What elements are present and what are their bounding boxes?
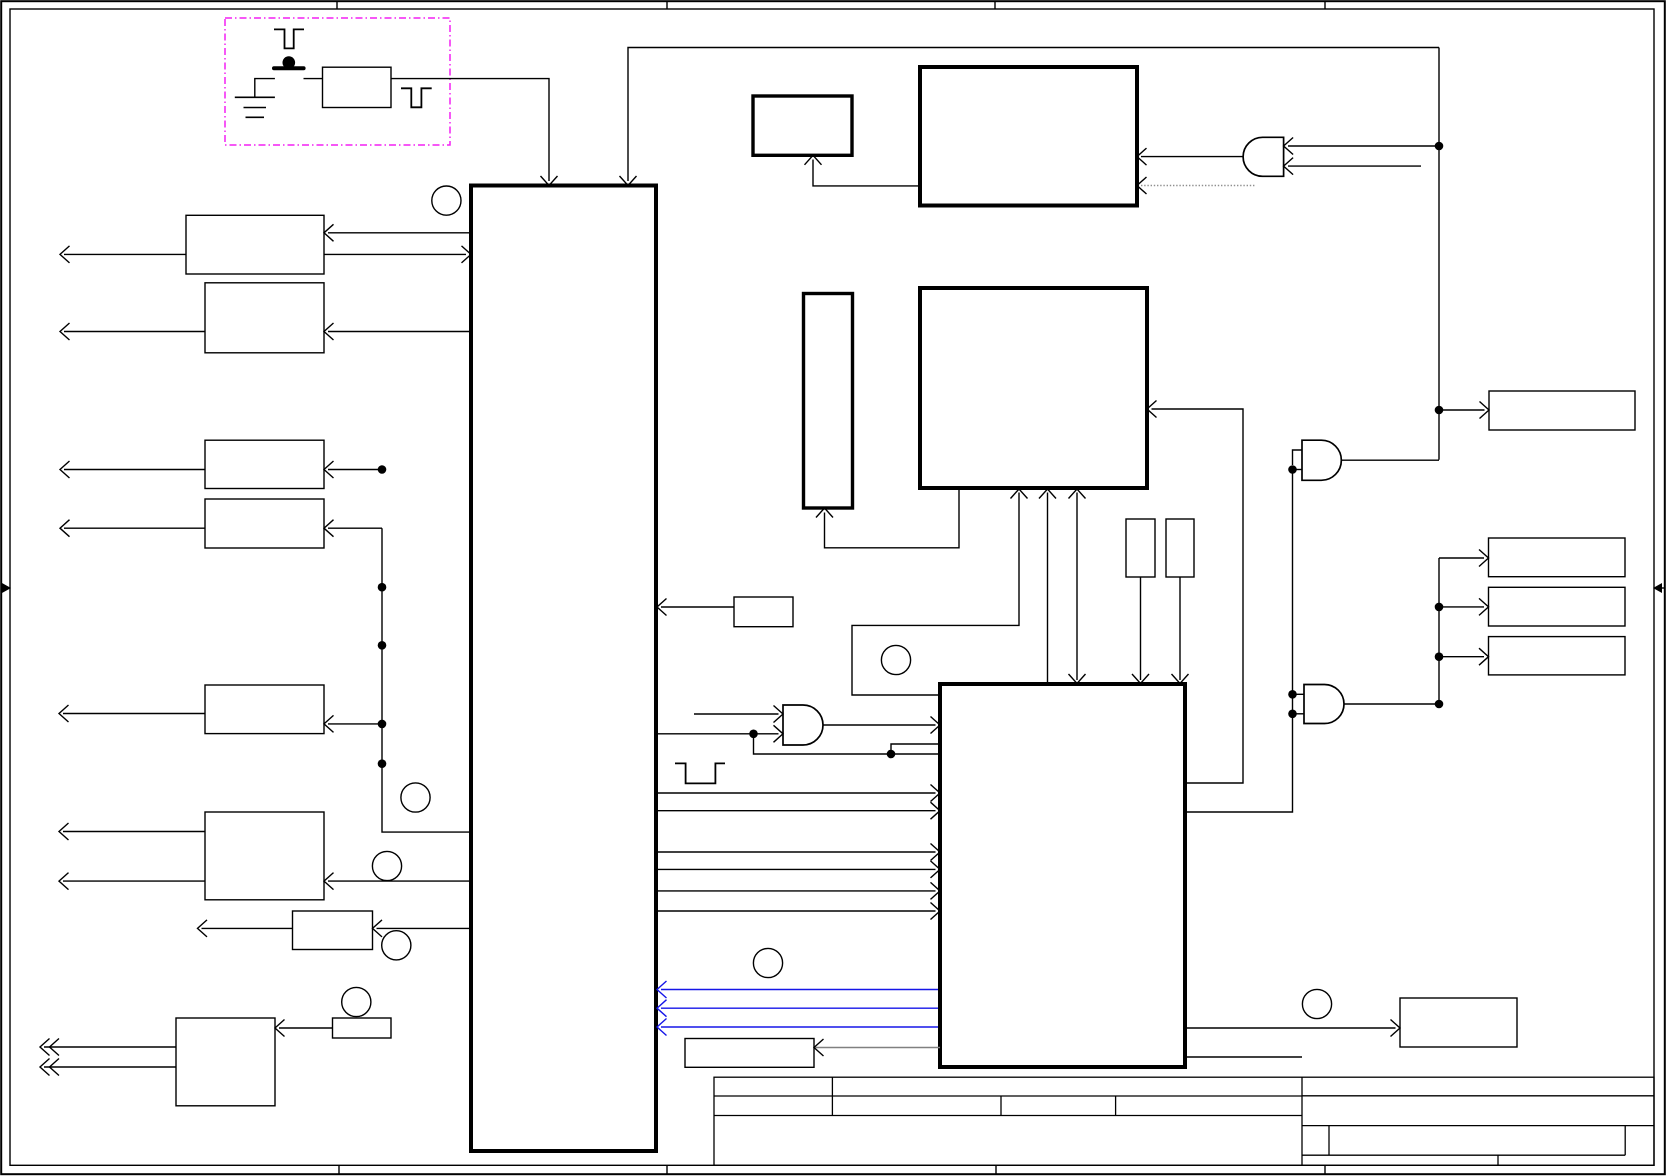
wire U5 output xyxy=(1341,459,1439,461)
U5 input stub 2 xyxy=(1293,469,1303,471)
pulse symbol (enable) xyxy=(675,763,725,783)
arrow into CPU top pin 2 xyxy=(620,176,637,186)
wire bus to box E xyxy=(328,723,382,725)
arrow data bus line 4 xyxy=(931,861,941,878)
wire U3 input 2 from CPU xyxy=(657,733,779,735)
junction U2 input1 / vertical net xyxy=(1435,142,1444,151)
data bus line 3 CPU to LCD xyxy=(657,851,936,853)
blue arrow line 1 xyxy=(657,981,667,998)
arrow box E output xyxy=(59,705,69,722)
junction enable branch xyxy=(887,750,896,759)
arrow data bus line 2 xyxy=(931,802,941,819)
title block main divider xyxy=(1301,1077,1303,1165)
arrow box H line 1 outer xyxy=(40,1039,50,1056)
annotation circle 3 xyxy=(372,851,401,880)
wire CPU to box F xyxy=(328,880,471,882)
junction box 6b xyxy=(1435,603,1444,612)
annotation circle 1 xyxy=(432,186,461,215)
data line 2 RAM to LCD xyxy=(1047,493,1049,683)
junction box 6c xyxy=(1435,652,1444,661)
arrow into RAM right edge xyxy=(1147,401,1157,418)
annotation circle 6 xyxy=(753,948,782,977)
arrow into box G right xyxy=(373,920,383,937)
title block right bottom divider xyxy=(1497,1155,1499,1165)
arrow into box5 xyxy=(1480,402,1490,419)
wire LCD to box L xyxy=(1185,1027,1396,1029)
wire to box 6a xyxy=(1439,557,1484,559)
arrow U3 input 2 xyxy=(774,725,784,742)
data bus line 1 CPU to LCD xyxy=(657,792,936,794)
arrow U3 input 1 xyxy=(774,706,784,723)
LCD controller block xyxy=(940,684,1185,1067)
annotation circle 7 xyxy=(881,645,910,674)
arrow box F output 1 xyxy=(59,823,69,840)
arrow into box D xyxy=(324,520,334,537)
junction U3 input2 branch xyxy=(749,730,758,739)
IO box F xyxy=(205,812,324,900)
wire net to box C xyxy=(328,469,382,471)
net dot 1 on bus xyxy=(378,583,387,592)
title block outline xyxy=(714,1077,1654,1165)
status box J xyxy=(734,597,793,627)
RAM block xyxy=(920,288,1147,488)
arrow into box 6c xyxy=(1479,648,1489,665)
debounce box U1 xyxy=(323,67,392,107)
blue arrow line 3 xyxy=(657,1019,667,1036)
wire LCD right to U6 inputs xyxy=(1185,470,1293,813)
arrow into buffer bottom xyxy=(816,508,833,518)
arrow U3 output into LCD xyxy=(931,717,941,734)
dotted signal into ROM xyxy=(1141,185,1255,187)
wire SW1 left contact to ground xyxy=(255,79,275,98)
U6 input stub 1 xyxy=(1293,693,1305,695)
gray signal LCD to box K xyxy=(814,1047,940,1049)
arrow into box 6a xyxy=(1479,550,1489,567)
title block left cell divider 2 xyxy=(1000,1096,1002,1116)
wire U2 input 2 xyxy=(1288,165,1421,167)
box 6a xyxy=(1489,538,1626,577)
arrow data line 2 into RAM xyxy=(1039,489,1056,499)
IO box B xyxy=(205,283,324,353)
wire ROM left to register xyxy=(813,160,920,186)
title block left cell divider 1 xyxy=(831,1077,833,1115)
wire U1 output to CPU top xyxy=(391,79,549,181)
pushbutton SW1 actuator xyxy=(283,56,296,69)
junction U5 inputs xyxy=(1288,465,1297,474)
wire box B output left xyxy=(64,331,205,333)
junction box5 branch xyxy=(1435,406,1444,415)
wire LCD right to RAM input xyxy=(1152,409,1244,783)
wire box I to box H xyxy=(279,1027,333,1029)
AND gate U5 xyxy=(1302,440,1341,480)
wire R1 to LCD xyxy=(1140,577,1142,680)
data line 1 RAM to LCD left xyxy=(852,493,1019,696)
annotation circle 8 xyxy=(1302,989,1331,1018)
junction U6 output / net xyxy=(1435,700,1444,709)
title block right row line 2 xyxy=(1302,1125,1654,1127)
border tick bottom 1 xyxy=(338,1165,340,1174)
title block left cell divider 3 xyxy=(1115,1096,1117,1116)
border tick top 3 xyxy=(994,1,996,9)
border tick bottom 3 xyxy=(995,1165,997,1174)
arrow box H line 2 outer xyxy=(40,1059,50,1076)
arrow data line 3 into RAM xyxy=(1069,489,1086,499)
arrow data bus line 6 xyxy=(931,903,941,920)
wire U3 output to LCD xyxy=(823,724,936,726)
wire top clock net xyxy=(628,48,1439,182)
arrow data bus line 1 xyxy=(931,785,941,802)
wire box A to CPU xyxy=(324,253,466,255)
arrow into CPU top pin 1 xyxy=(541,176,558,186)
wire to box5 xyxy=(1439,409,1485,411)
wire RAM bottom to buffer bottom xyxy=(825,488,960,548)
junction U6 input 2 xyxy=(1288,710,1297,719)
wire box H line 1 xyxy=(44,1046,176,1048)
arrow U2 input 2 xyxy=(1284,158,1294,175)
arrow into box C xyxy=(324,461,334,478)
arrow into box L xyxy=(1391,1020,1401,1037)
net dot box C xyxy=(378,465,387,474)
ROM block xyxy=(920,67,1137,206)
wire box F output 1 xyxy=(63,831,205,833)
data line 3 RAM to LCD xyxy=(1076,493,1078,681)
box5 xyxy=(1489,391,1635,430)
wire box A output left xyxy=(64,253,186,255)
blue arrow line 2 xyxy=(657,1000,667,1017)
arrow into box 6b xyxy=(1479,598,1489,615)
arrow gray signal into box K xyxy=(814,1039,824,1056)
border center mark right xyxy=(1662,587,1665,589)
IO box D xyxy=(205,499,324,548)
net dot box E xyxy=(378,720,387,729)
wire enable stub xyxy=(891,744,938,754)
small box I xyxy=(333,1018,392,1038)
arrow into box B right xyxy=(324,323,334,340)
wire box J to CPU xyxy=(661,606,734,608)
title block right cell divider 1 xyxy=(1328,1126,1330,1156)
border tick top 2 xyxy=(666,1,668,9)
wire right vertical net (lower) xyxy=(1438,558,1440,704)
data bus line 5 CPU to LCD xyxy=(657,890,936,892)
latch box A xyxy=(186,215,324,274)
data bus line 6 CPU to LCD xyxy=(657,910,936,912)
border tick bottom 2 xyxy=(666,1165,668,1174)
arrow into box H right xyxy=(275,1020,285,1037)
buffer box (tall thick) xyxy=(804,294,853,509)
pulse symbol (debounced output) xyxy=(401,88,432,107)
control bus vertical xyxy=(382,528,469,832)
AND gate U3 xyxy=(783,705,823,745)
arrow R1 wire into LCD xyxy=(1132,674,1149,684)
wire to box 6b xyxy=(1439,606,1484,608)
blue bus line 1 LCD to CPU xyxy=(661,989,940,991)
arrow into CPU left (box A) xyxy=(462,246,472,263)
border tick bottom 4 xyxy=(1324,1165,1326,1174)
stub wire below box L xyxy=(1185,1056,1302,1058)
wire box G output left xyxy=(202,927,293,929)
AND gate U6 xyxy=(1304,685,1344,724)
wire enable to LCD xyxy=(754,734,939,754)
wire U6 output xyxy=(1344,703,1439,705)
arrow data line 3 into LCD xyxy=(1069,674,1086,684)
ground symbol xyxy=(235,96,275,98)
data bus line 2 CPU to LCD xyxy=(657,810,936,812)
latch box G xyxy=(293,911,373,950)
junction U6 input 1 xyxy=(1288,690,1297,699)
arrow box D output xyxy=(60,520,70,537)
wire CPU to box B xyxy=(328,331,471,333)
box 6c xyxy=(1489,637,1626,675)
arrow into CPU right (box J) xyxy=(657,599,667,616)
data bus line 4 CPU to LCD xyxy=(657,868,936,870)
net dot 4 on bus xyxy=(378,759,387,768)
blue bus line 3 LCD to CPU xyxy=(661,1026,940,1028)
connector box H xyxy=(176,1018,275,1106)
U5 input stub 1 xyxy=(1293,450,1303,465)
pushbutton SW1 contact bar xyxy=(274,66,304,70)
annotation circle 2 xyxy=(401,783,430,812)
highlight box (magenta dash-dot) xyxy=(225,18,450,145)
arrow into ROM right edge xyxy=(1137,148,1147,165)
border center mark left xyxy=(1,587,4,589)
arrow box F output 2 xyxy=(59,873,69,890)
arrow data bus line 5 xyxy=(931,882,941,899)
register box (thick) xyxy=(753,96,852,155)
title block left row line 1 xyxy=(714,1095,1302,1097)
arrow into box F right xyxy=(324,873,334,890)
wire SW1 right contact to U1 xyxy=(304,78,323,80)
annotation circle 4 xyxy=(382,931,411,960)
box 6b xyxy=(1489,587,1626,626)
arrow box B output xyxy=(60,323,70,340)
AND gate U2 xyxy=(1243,137,1284,176)
border tick top 4 xyxy=(1324,1,1326,9)
wire U2 output to ROM xyxy=(1141,156,1243,158)
CPU block xyxy=(471,186,656,1152)
arrow into box E xyxy=(324,715,334,732)
arrow box G output xyxy=(198,920,208,937)
border tick top 1 xyxy=(336,1,338,9)
wire box D output left xyxy=(64,527,205,529)
wire U3 input 1 xyxy=(694,713,779,715)
wire box H line 2 xyxy=(44,1066,176,1068)
wire box C output left xyxy=(64,469,205,471)
box K xyxy=(685,1039,814,1068)
pulse symbol (switch input) xyxy=(274,29,304,48)
title block right cell divider 2 xyxy=(1624,1126,1626,1156)
wire CPU to box A xyxy=(328,232,471,234)
wire to box 6c xyxy=(1439,656,1484,658)
title block right row line 3 xyxy=(1302,1154,1625,1156)
arrow R2 wire into LCD xyxy=(1172,674,1189,684)
wire U2 input 1 xyxy=(1288,145,1439,147)
wire box E output left xyxy=(63,713,205,715)
resistor R1 xyxy=(1126,519,1155,577)
IO box C xyxy=(205,440,324,488)
wire net to box D xyxy=(328,527,382,529)
arrow data line 1 into RAM xyxy=(1011,489,1028,499)
arrow U2 input 1 xyxy=(1284,138,1294,155)
title block left row line 2 xyxy=(714,1115,1302,1117)
wire box F output 2 xyxy=(63,880,205,882)
wire CPU to box G xyxy=(377,927,472,929)
arrow into box A right xyxy=(324,224,334,241)
resistor R2 xyxy=(1166,519,1194,577)
blue bus line 2 LCD to CPU xyxy=(661,1007,940,1009)
arrow dotted signal xyxy=(1137,177,1147,194)
box L xyxy=(1400,998,1517,1047)
wire R2 to LCD xyxy=(1179,577,1181,680)
title block right row line 1 xyxy=(1302,1095,1654,1097)
net dot 2 on bus xyxy=(378,641,387,650)
IO box E xyxy=(205,685,324,734)
arrow data bus line 3 xyxy=(931,844,941,861)
wire right vertical net (upper) xyxy=(1438,48,1440,460)
arrow box A output xyxy=(60,246,70,263)
arrow box C output xyxy=(60,461,70,478)
annotation circle 5 xyxy=(342,987,371,1016)
U6 input stub 2 xyxy=(1293,713,1305,715)
arrow into register bottom xyxy=(805,155,822,165)
